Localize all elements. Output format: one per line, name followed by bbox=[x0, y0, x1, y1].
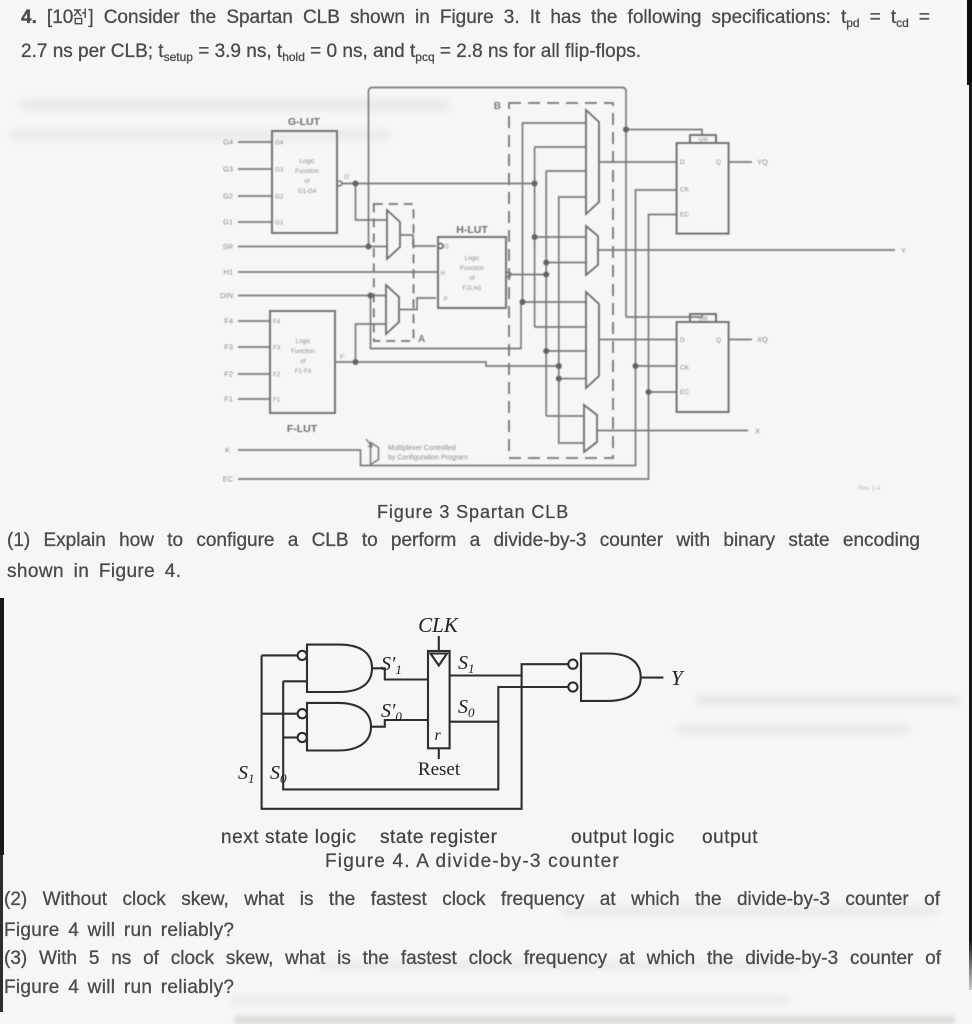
svg-text:S/R: S/R bbox=[698, 317, 708, 323]
bottom scan smudge bbox=[235, 1016, 955, 1024]
svg-text:Q: Q bbox=[716, 337, 721, 344]
top problem statement bbox=[21, 6, 930, 29]
svg-text:Rev. 1-4: Rev. 1-4 bbox=[858, 486, 881, 492]
svg-text:Y: Y bbox=[901, 246, 906, 255]
svg-text:S1: S1 bbox=[458, 652, 475, 676]
H-LUT title bbox=[456, 224, 488, 236]
junction SR bbox=[366, 127, 630, 250]
svg-text:F3: F3 bbox=[273, 345, 281, 352]
output pin labels bbox=[755, 158, 906, 436]
dashed box A bbox=[374, 204, 414, 341]
FF1 labels bbox=[680, 138, 721, 219]
gate G2 (AND, both inputs inverted) bbox=[298, 703, 371, 751]
F-LUT U2 bbox=[270, 311, 335, 413]
svg-text:Logic: Logic bbox=[465, 255, 480, 262]
svg-text:YQ: YQ bbox=[757, 158, 768, 167]
svg-text:of: of bbox=[469, 275, 474, 282]
svg-text:S0: S0 bbox=[270, 762, 287, 786]
svg-text:F1-F4: F1-F4 bbox=[295, 368, 312, 375]
junction K tap bbox=[633, 363, 639, 369]
legend text bbox=[388, 445, 468, 462]
label B bbox=[494, 101, 501, 112]
svg-text:of: of bbox=[300, 358, 305, 365]
label CLK bbox=[418, 613, 459, 637]
svg-text:F: F bbox=[444, 297, 448, 303]
svg-text:D: D bbox=[680, 337, 685, 344]
wire input H1 bbox=[238, 271, 438, 273]
svg-text:F4: F4 bbox=[224, 317, 233, 326]
label A bbox=[418, 334, 425, 345]
label S'0 bbox=[381, 700, 402, 724]
gate G1 (AND, inverted top input) bbox=[298, 645, 372, 692]
svg-text:Function: Function bbox=[295, 168, 319, 175]
svg-text:Reset: Reset bbox=[418, 759, 461, 780]
G-LUT U1 bbox=[272, 131, 337, 233]
svg-text:X: X bbox=[755, 427, 760, 436]
mux A1 bbox=[387, 210, 400, 259]
wire S0 to G1 input 2 bbox=[283, 680, 307, 682]
state register U4 bbox=[428, 651, 450, 748]
svg-text:Function: Function bbox=[291, 348, 315, 355]
svg-text:K: K bbox=[225, 446, 230, 455]
svg-text:G1-G4: G1-G4 bbox=[298, 188, 317, 195]
wire F' output net bbox=[335, 197, 586, 443]
svg-text:F-LUT: F-LUT bbox=[287, 423, 318, 435]
wire EC input bbox=[238, 215, 676, 480]
wire output Y bbox=[598, 249, 895, 251]
wire output Y bbox=[641, 677, 664, 679]
svg-text:EC: EC bbox=[680, 212, 689, 219]
svg-text:CLK: CLK bbox=[418, 613, 459, 637]
wire G2 out S'0 to register bbox=[371, 720, 428, 727]
G-LUT title bbox=[288, 116, 321, 128]
svg-text:F1: F1 bbox=[273, 397, 281, 404]
wire FF1 Q to YQ bbox=[729, 161, 752, 163]
wire mux A1 out to H-LUT G bbox=[400, 235, 436, 246]
svg-text:S1: S1 bbox=[238, 762, 255, 786]
svg-text:H-LUT: H-LUT bbox=[456, 224, 488, 236]
svg-text:CK: CK bbox=[680, 365, 690, 372]
wire input F3 bbox=[238, 346, 270, 348]
mux B4 bbox=[584, 405, 597, 452]
svg-text:Multiplexer Controlled: Multiplexer Controlled bbox=[388, 445, 456, 452]
svg-text:Y: Y bbox=[671, 666, 685, 690]
wire DIN loop to D-muxes bbox=[371, 123, 587, 349]
wire input SR bbox=[238, 246, 387, 248]
wire input F1 bbox=[238, 398, 270, 400]
svg-text:F2: F2 bbox=[273, 372, 281, 379]
label S0 feedback bbox=[270, 762, 287, 786]
F-LUT labels bbox=[273, 319, 345, 404]
wire mux B1 out to FF1 D bbox=[599, 161, 676, 163]
label S'1 bbox=[381, 653, 402, 677]
wire CLK bbox=[438, 636, 440, 651]
mux A2 bbox=[386, 285, 399, 334]
scan edge black strip bbox=[0, 598, 4, 855]
label r bbox=[435, 727, 442, 744]
question (2) bbox=[4, 888, 940, 911]
right scan edge bbox=[969, 0, 972, 940]
F-LUT title bbox=[287, 423, 318, 435]
wire H' output net bbox=[506, 171, 586, 416]
wire mux A2 out to H-LUT F bbox=[399, 298, 436, 310]
wire S1 feedback loop bbox=[262, 655, 569, 808]
label S1 register output bbox=[458, 652, 475, 676]
svg-text:H1: H1 bbox=[223, 268, 233, 277]
wire FF2 Q to XQ bbox=[729, 339, 752, 341]
svg-text:XQ: XQ bbox=[757, 335, 768, 344]
wire S0 to G2 bubble 2 bbox=[283, 736, 297, 738]
svg-text:G: G bbox=[444, 245, 449, 251]
svg-text:D: D bbox=[680, 159, 685, 166]
svg-text:B: B bbox=[494, 101, 501, 112]
svg-text:Logic: Logic bbox=[300, 158, 315, 165]
wire G1 out S'1 to register bbox=[372, 668, 428, 679]
FF2 labels bbox=[680, 317, 721, 397]
svg-text:A: A bbox=[418, 334, 425, 345]
svg-text:Function: Function bbox=[460, 265, 484, 272]
svg-text:G3: G3 bbox=[275, 167, 284, 174]
svg-text:G2: G2 bbox=[223, 192, 233, 201]
svg-text:DIN: DIN bbox=[220, 291, 233, 300]
wire S0 feedback loop bbox=[283, 681, 568, 789]
junction G' tap bbox=[353, 181, 538, 241]
label S0 register output bbox=[458, 696, 475, 720]
wire Reset stub bbox=[438, 748, 440, 759]
wire S1 to G2 bubble 1 bbox=[262, 713, 298, 715]
faint revision text bbox=[858, 486, 881, 492]
svg-text:G1: G1 bbox=[223, 218, 233, 227]
wire G' output net bbox=[337, 147, 586, 327]
question (3) bbox=[4, 947, 941, 970]
svg-text:F,G,H1: F,G,H1 bbox=[462, 285, 482, 292]
svg-text:G2: G2 bbox=[275, 194, 284, 201]
legend multiplexer symbol bbox=[366, 439, 379, 465]
mux B3 bbox=[586, 292, 599, 388]
svg-text:Logic: Logic bbox=[296, 338, 311, 345]
svg-text:F4: F4 bbox=[273, 319, 281, 326]
faint bleedthrough ghosts bbox=[695, 695, 960, 706]
svg-text:G1: G1 bbox=[275, 220, 284, 227]
label Y bbox=[671, 666, 685, 690]
label Reset bbox=[418, 759, 461, 780]
wire input G3 bbox=[238, 168, 272, 170]
svg-text:G3: G3 bbox=[223, 165, 233, 174]
wire mux B3 out to FF2 D bbox=[599, 339, 676, 341]
svg-text:S′0: S′0 bbox=[381, 700, 402, 724]
svg-text:F2: F2 bbox=[224, 370, 233, 379]
svg-text:H: H bbox=[441, 271, 445, 277]
wire input F2 bbox=[238, 373, 270, 375]
wire input G4 bbox=[238, 141, 272, 143]
svg-text:F': F' bbox=[340, 355, 345, 361]
svg-text:F3: F3 bbox=[224, 343, 233, 352]
svg-text:G': G' bbox=[344, 175, 350, 181]
flip-flop FF2 bbox=[677, 314, 729, 412]
wire input G2 bbox=[238, 195, 272, 197]
wire input G1 bbox=[238, 221, 272, 223]
svg-text:r: r bbox=[435, 727, 442, 744]
wire input F4 bbox=[238, 320, 270, 322]
junction EC tap bbox=[646, 389, 652, 395]
svg-text:SR: SR bbox=[223, 242, 234, 251]
svg-text:EC: EC bbox=[223, 475, 234, 484]
svg-text:S0: S0 bbox=[458, 696, 475, 720]
caption figure 3 bbox=[377, 502, 569, 523]
svg-text:by Configuration Program: by Configuration Program bbox=[388, 455, 468, 462]
input pin labels bbox=[220, 138, 234, 484]
junction F' taps bbox=[353, 359, 562, 382]
wire SR to S/R rail bbox=[369, 88, 703, 318]
svg-text:EC: EC bbox=[680, 389, 689, 396]
mux B2 bbox=[586, 226, 598, 275]
svg-text:G4: G4 bbox=[223, 138, 233, 147]
svg-text:of: of bbox=[304, 178, 309, 185]
svg-text:G4: G4 bbox=[275, 140, 284, 147]
wire output X bbox=[597, 430, 748, 432]
junction DIN bbox=[368, 293, 526, 306]
register clock triangle bbox=[431, 654, 448, 666]
svg-text:G-LUT: G-LUT bbox=[288, 116, 321, 128]
label S1 feedback bbox=[238, 762, 255, 786]
svg-text:S′1: S′1 bbox=[381, 653, 402, 677]
svg-text:Q: Q bbox=[716, 159, 721, 166]
gate G3 (output AND, inverted inputs) bbox=[568, 654, 640, 701]
question (1) bbox=[7, 529, 920, 552]
dashed box B bbox=[509, 103, 613, 458]
wire input DIN bbox=[238, 295, 386, 297]
H-LUT labels bbox=[441, 245, 485, 304]
caption figure 4 bbox=[325, 851, 620, 873]
junction H' taps bbox=[543, 260, 549, 355]
H-LUT U3 bbox=[438, 237, 506, 308]
wire K input bbox=[238, 190, 676, 466]
svg-text:F1: F1 bbox=[224, 395, 233, 404]
mux B1 bbox=[586, 110, 599, 214]
wire S1 to G1 bubble bbox=[262, 654, 298, 656]
flip-flop FF1 bbox=[677, 135, 729, 234]
figure 4 stage labels bbox=[221, 827, 357, 849]
G-LUT labels bbox=[275, 140, 350, 227]
svg-text:CK: CK bbox=[680, 187, 690, 194]
svg-text:S/R: S/R bbox=[698, 138, 708, 144]
